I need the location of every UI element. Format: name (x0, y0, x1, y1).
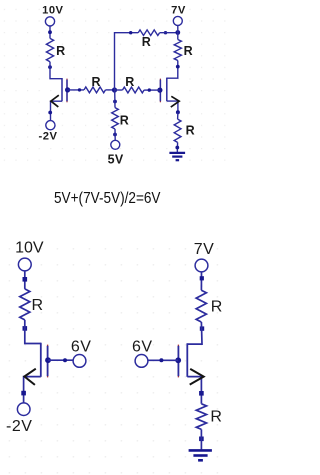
Q3 source arrow (black) (24, 369, 35, 385)
terminal -2V (bottom) (17, 403, 30, 416)
resistor R3 (right drain load, top) (174, 40, 181, 61)
svg-text:6V: 6V (71, 339, 92, 356)
resistor R (bottom left drain load) (20, 289, 30, 320)
Q2 source wire (167, 101, 178, 112)
wire 6V terminal to Q4 gate (148, 359, 178, 361)
svg-text:-2V: -2V (39, 131, 58, 143)
terminal 6V (right) (135, 355, 148, 368)
wire 10V to R1 (49, 26, 51, 38)
Q1 gate junction dot (65, 87, 70, 92)
wire R to Q3 drain (25, 320, 41, 344)
pin dot above ground (175, 146, 179, 150)
transistor Q4 channel bar (186, 343, 188, 377)
junction pin dot below 10V (48, 30, 52, 34)
terminal 10V (top) (45, 17, 54, 26)
pin dot above 5V terminal (113, 133, 117, 137)
transistor Q1 channel bar (61, 78, 63, 101)
junction dot at 7V column (175, 30, 180, 35)
svg-text:-2V: -2V (6, 418, 32, 435)
resistor R2 (top horizontal) (138, 30, 159, 36)
pin dot below 7V (bottom) (200, 276, 204, 280)
terminal 7V (top) (173, 16, 182, 25)
pin dot below R (bottom right top) (200, 326, 204, 330)
terminal 6V (left) (73, 355, 86, 368)
wire 7V to R (bottom right top) (200, 272, 202, 290)
terminal -2V (top) (46, 121, 55, 130)
wire center node to R5 (115, 89, 123, 91)
Q3 gate bar red pin tips (47, 345, 49, 378)
Q1 gate bar red pin tips (66, 79, 68, 103)
svg-text:R: R (184, 44, 193, 58)
svg-text:7V: 7V (194, 241, 215, 258)
Q4 source wire (187, 377, 201, 404)
pin dot on Q4 gate wire (159, 358, 163, 362)
pin dot on Q3 gate wire (63, 358, 67, 362)
Q2 source arrow (black) (171, 96, 179, 107)
pin dot below 10V (bottom) (23, 277, 28, 282)
resistor R5 (right gate resistor) (123, 87, 145, 93)
pin dot Q4 source (199, 391, 204, 396)
terminal 10V (bottom) (18, 258, 31, 271)
terminal 5V (top) (111, 140, 120, 149)
resistor R4 (left gate resistor) (84, 87, 106, 93)
wire R7 to ground (176, 142, 178, 152)
svg-text:R: R (91, 75, 100, 89)
Q3 source wire to -2V (24, 377, 41, 403)
svg-text:R: R (186, 124, 195, 138)
wire center node down to R6 (114, 90, 116, 108)
transistor Q2 channel bar (166, 78, 168, 102)
svg-text:R: R (125, 75, 134, 89)
transistor Q2 gate bar (159, 80, 161, 102)
resistor R1 (top left, drain load) (46, 38, 53, 61)
pin dot below center node (113, 100, 117, 104)
wire R4 to center node (106, 89, 115, 91)
Q4 gate junction dot (175, 357, 181, 363)
wire 10V to R (bottom left) (24, 271, 26, 289)
svg-text:6V: 6V (132, 339, 153, 356)
wire R to ground (bottom) (200, 429, 202, 450)
terminal 7V (bottom) (195, 259, 208, 272)
pin dot above -2V terminal (48, 111, 52, 115)
pin dot Q2 source (176, 110, 180, 114)
pin dot above -2V (bottom) (21, 391, 26, 396)
wire 7V to R3 (177, 25, 179, 39)
svg-text:5V: 5V (108, 153, 124, 167)
wire R2 to 7V column (160, 32, 178, 34)
wire Q2 source to R7 (177, 112, 179, 119)
svg-text:R: R (211, 298, 223, 315)
wire R to Q4 drain (187, 322, 202, 344)
pin dot R1 bottom (48, 65, 52, 69)
Q2 gate junction dot (157, 88, 162, 93)
resistor R7 (source resistor, top right) (174, 119, 181, 142)
pin dot on Q2 gate wire (148, 88, 151, 91)
wire R1 to Q1 drain (50, 62, 62, 79)
svg-text:R: R (120, 114, 129, 128)
pin dot above ground (bottom) (199, 437, 204, 442)
Q3 gate junction dot (45, 357, 51, 363)
center node junction dot (112, 87, 117, 92)
Q4 source arrow (black) (190, 369, 204, 385)
pin dot below R (bottom left) (23, 326, 28, 331)
wire R6 to 5V terminal (114, 129, 116, 140)
ground symbol (top) (169, 153, 185, 160)
Q1 source wire to -2V (51, 101, 63, 121)
ground symbol (bottom) (189, 450, 212, 460)
svg-text:R: R (32, 297, 44, 314)
Q4 gate bar red pin tips (177, 345, 179, 378)
Q1 source arrow (black) (51, 95, 59, 107)
svg-text:R: R (210, 409, 222, 426)
wire Q3 gate to 6V terminal (left) (48, 359, 73, 361)
wire center node up and to R2 (115, 33, 139, 90)
pin dot on Q2 drain wire (176, 65, 180, 69)
wire R5 to Q2 gate (144, 89, 160, 91)
svg-text:10V: 10V (42, 4, 63, 16)
transistor Q1 gate bar (66, 80, 68, 102)
pin dot right of R2 (164, 31, 167, 34)
resistor R (bottom right drain load) (196, 290, 206, 322)
pin dot on Q1 gate wire (78, 88, 81, 91)
svg-text:5V+(7V-5V)/2=6V: 5V+(7V-5V)/2=6V (54, 190, 161, 207)
Q2 gate bar red pin tips (159, 79, 161, 103)
svg-text:R: R (56, 44, 65, 58)
resistor R6 (middle, to 5V) (112, 108, 119, 129)
svg-text:10V: 10V (15, 240, 44, 257)
pin dot on top wire (129, 31, 132, 34)
resistor R (bottom right source) (196, 404, 206, 430)
wire Q1 gate to R4 (68, 89, 84, 91)
svg-text:R: R (142, 35, 151, 49)
wire R3 to Q2 drain (167, 61, 178, 79)
svg-text:7V: 7V (171, 4, 186, 16)
transistor Q3 gate bar (47, 346, 49, 376)
transistor Q3 channel bar (40, 343, 42, 377)
transistor Q4 gate bar (177, 346, 179, 376)
